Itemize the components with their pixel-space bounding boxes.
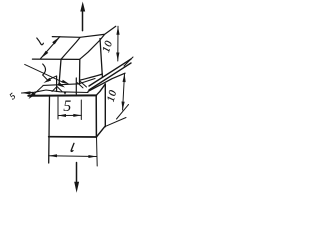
svg-text:5: 5: [7, 91, 17, 102]
svg-text:10: 10: [101, 39, 115, 54]
svg-text:10: 10: [106, 89, 120, 104]
svg-text:5: 5: [63, 98, 71, 115]
